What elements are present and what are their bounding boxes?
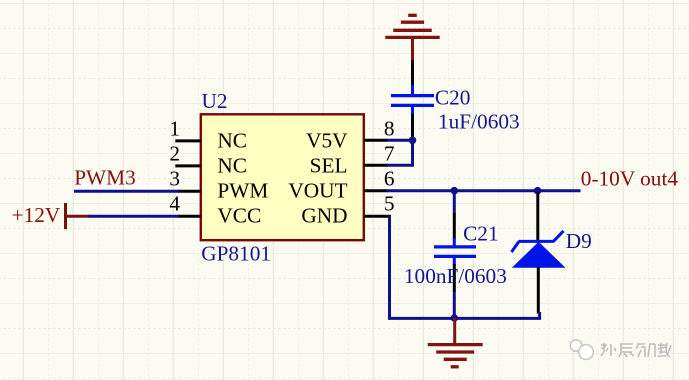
svg-text:1: 1	[169, 116, 180, 140]
value GP8101	[201, 242, 271, 266]
ground GND (bottom)	[428, 318, 483, 367]
wire PWM3 to pin 3	[74, 190, 179, 193]
svg-text:8: 8	[384, 116, 395, 140]
svg-text:7: 7	[384, 141, 395, 165]
svg-text:PWM3: PWM3	[74, 166, 136, 190]
power port +12V	[12, 203, 90, 229]
pin 7 SEL	[310, 141, 395, 177]
svg-text:C21: C21	[463, 222, 499, 246]
watermark text 孙辰所致	[602, 344, 672, 358]
wire pin 8 to junction	[387, 139, 413, 142]
svg-text:U2: U2	[202, 89, 228, 113]
IC U2 body	[201, 114, 364, 240]
svg-text:3: 3	[169, 167, 180, 191]
designator C20	[435, 86, 471, 110]
pin 6 VOUT	[288, 167, 395, 203]
node junction ground	[451, 314, 459, 322]
wire +12V to pin 4	[89, 215, 180, 218]
svg-text:PWM: PWM	[217, 178, 268, 202]
svg-text:VOUT: VOUT	[288, 178, 347, 202]
capacitor C20	[391, 85, 434, 138]
node junction D9 top	[534, 187, 542, 195]
svg-text:VCC: VCC	[217, 204, 261, 228]
net label PWM3	[74, 166, 136, 190]
wire junction to C21	[453, 191, 456, 214]
earth ground (top)	[385, 15, 439, 61]
wire C21 to bottom rail	[453, 291, 456, 318]
wire pin 5 to bottom rail	[390, 216, 540, 318]
pin 2 NC	[169, 141, 247, 177]
svg-text:NC: NC	[217, 129, 247, 153]
designator C21	[463, 222, 499, 246]
svg-text:4: 4	[169, 192, 180, 216]
designator D9	[566, 229, 592, 253]
svg-text:V5V: V5V	[306, 129, 348, 153]
net label 0-10V out4	[581, 167, 679, 191]
svg-text:NC: NC	[217, 154, 247, 178]
svg-text:6: 6	[384, 167, 395, 191]
pin 1 NC	[169, 116, 247, 152]
watermark logo	[570, 340, 593, 360]
capacitor C21	[434, 213, 476, 292]
value 100nF/0603	[404, 264, 507, 288]
pin 4 VCC	[169, 192, 261, 228]
wire ground to C20	[411, 60, 414, 86]
svg-text:+12V: +12V	[12, 203, 61, 227]
svg-text:0-10V out4: 0-10V out4	[581, 167, 679, 191]
svg-text:2: 2	[169, 141, 180, 165]
svg-text:5: 5	[384, 192, 395, 216]
node junction C21 top	[451, 187, 459, 195]
zener diode D9	[512, 192, 566, 314]
wire junction to pin 7	[387, 140, 413, 165]
svg-text:C20: C20	[435, 86, 471, 110]
designator U2	[202, 89, 228, 113]
pin 8 V5V	[306, 116, 394, 152]
wire VOUT pin 6 to net label	[387, 189, 581, 192]
svg-text:GP8101: GP8101	[201, 242, 271, 266]
value 1uF/0603	[438, 109, 520, 133]
pin 3 PWM	[169, 167, 268, 203]
svg-text:GND: GND	[301, 204, 347, 228]
svg-text:SEL: SEL	[310, 154, 348, 178]
svg-text:100nF/0603: 100nF/0603	[404, 264, 507, 288]
pin 5 GND	[301, 192, 394, 228]
svg-text:1uF/0603: 1uF/0603	[438, 109, 520, 133]
node junction at pin 8	[409, 137, 417, 145]
svg-text:D9: D9	[566, 229, 592, 253]
